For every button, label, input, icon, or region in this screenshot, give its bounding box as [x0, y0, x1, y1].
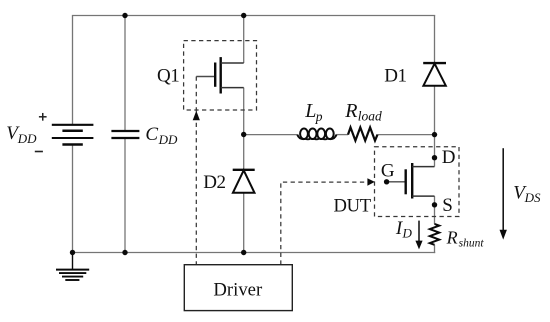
diode D2	[233, 170, 255, 193]
junction: CDD top	[122, 13, 127, 18]
ground	[56, 253, 89, 281]
wire: Q1 source to switch node	[243, 88, 245, 135]
svg-text:D2: D2	[203, 172, 225, 193]
diode D1	[423, 63, 446, 86]
svg-text:DD: DD	[17, 131, 37, 146]
svg-text:D1: D1	[384, 66, 406, 87]
svg-text:R: R	[344, 100, 357, 122]
transistor DUT mosfet	[387, 163, 435, 199]
label Rload	[344, 100, 382, 124]
wire: DUT drain lead	[434, 135, 436, 167]
node G terminal dot	[384, 179, 389, 184]
svg-text:p: p	[315, 109, 323, 124]
wire: D1 cathode lead from top rail	[434, 16, 436, 64]
node S terminal dot	[432, 202, 437, 207]
node D terminal dot	[432, 155, 437, 160]
transistor Q1	[196, 57, 243, 93]
wire: CDD top lead	[124, 16, 126, 131]
svg-text:S: S	[442, 195, 453, 216]
inductor Lp	[297, 129, 336, 140]
arrow ID current	[415, 221, 422, 250]
label battery minus	[35, 151, 43, 153]
svg-text:DUT: DUT	[334, 196, 372, 217]
capacitor CDD	[111, 131, 139, 138]
arrowhead on Q1 gate drive	[193, 111, 200, 120]
wire: D2 anode lead to ground rail	[243, 193, 245, 253]
wire: DUT source lead to Rshunt	[434, 196, 436, 224]
wire: dashed gate drive line Driver to DUT	[281, 182, 369, 265]
svg-text:L: L	[304, 100, 316, 122]
svg-text:Driver: Driver	[213, 280, 263, 301]
dashed box around DUT	[375, 147, 460, 217]
junction: switch node	[241, 132, 246, 137]
svg-text:C: C	[145, 124, 158, 145]
wire: Rload to node D	[378, 134, 435, 136]
svg-text:G: G	[381, 161, 395, 182]
junction: CDD ground	[122, 250, 127, 255]
svg-text:DD: DD	[158, 132, 178, 147]
svg-text:R: R	[446, 227, 458, 247]
wire: Q1 drain lead from top rail	[243, 16, 245, 64]
dashed box around Q1	[184, 41, 257, 110]
wire: Rshunt bottom lead	[434, 245, 436, 253]
wire: between Lp and Rload	[336, 134, 348, 136]
wire: battery bottom lead	[72, 145, 74, 253]
wire: D2 cathode lead from switch node	[243, 135, 245, 170]
wire: switch node to inductor Lp	[244, 134, 298, 136]
wire: ground rail	[73, 252, 436, 254]
svg-text:DS: DS	[524, 190, 541, 205]
label VDS	[513, 182, 541, 205]
resistor Rload	[348, 127, 378, 140]
wire: D1 anode lead to node	[434, 86, 436, 135]
junction: battery ground	[70, 250, 75, 255]
arrowhead on DUT gate drive	[367, 178, 374, 186]
label Lp	[304, 100, 323, 124]
svg-text:shunt: shunt	[459, 238, 485, 250]
wire: battery top lead	[72, 16, 74, 125]
label VDD	[6, 123, 37, 146]
junction: D2 anode ground	[241, 250, 246, 255]
label ID	[395, 218, 413, 240]
svg-text:load: load	[358, 109, 382, 124]
label CDD	[145, 124, 178, 147]
label battery plus	[39, 113, 47, 121]
battery VDD	[52, 125, 94, 145]
Driver box	[184, 265, 292, 311]
svg-text:D: D	[442, 147, 456, 168]
svg-text:D: D	[402, 225, 413, 240]
label Rshunt	[446, 227, 485, 249]
wire: top rail	[72, 15, 435, 17]
svg-text:Q1: Q1	[157, 66, 179, 87]
resistor Rshunt	[430, 224, 439, 245]
arrow VDS voltage	[500, 148, 507, 239]
wire: CDD bottom lead	[124, 138, 126, 253]
wire: dashed gate drive line Driver to Q1	[195, 77, 197, 265]
junction: node at D1 anode and Rload	[432, 132, 437, 137]
junction: Q1 drain top	[241, 13, 246, 18]
